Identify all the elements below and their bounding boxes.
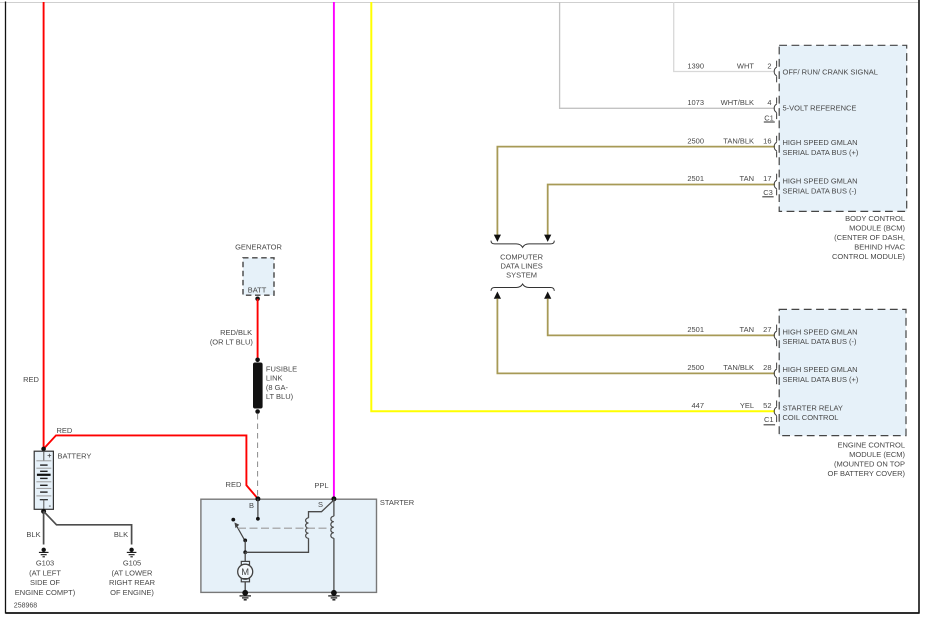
- svg-text:RED: RED: [23, 375, 39, 384]
- svg-text:52: 52: [763, 401, 771, 410]
- svg-text:(OR LT BLU): (OR LT BLU): [210, 338, 254, 347]
- svg-text:BATTERY: BATTERY: [58, 451, 92, 460]
- svg-text:2501: 2501: [687, 174, 704, 183]
- label diagram number 258968: [14, 602, 37, 609]
- label FUSIBLE LINK (8 GA- LT BLU): [266, 364, 297, 400]
- svg-text:HIGH SPEED GMLAN: HIGH SPEED GMLAN: [783, 365, 858, 374]
- BCM pin 2 connector: [774, 67, 777, 76]
- svg-text:SERIAL DATA BUS (+): SERIAL DATA BUS (+): [783, 375, 859, 384]
- BCM pin 4 connector: [774, 104, 777, 113]
- label BCM caption: [832, 214, 906, 261]
- svg-text:MODULE (ECM): MODULE (ECM): [849, 450, 905, 459]
- page bottom border: [6, 612, 920, 614]
- node generator BATT terminal: [255, 297, 260, 302]
- svg-text:(AT LEFT: (AT LEFT: [29, 568, 61, 577]
- wire dashed fusible link to starter B: [257, 414, 259, 497]
- svg-text:M: M: [241, 566, 249, 577]
- svg-text:GENERATOR: GENERATOR: [235, 243, 282, 252]
- svg-text:2500: 2500: [687, 136, 704, 145]
- svg-text:YEL: YEL: [740, 401, 754, 410]
- label wire 1073 WHT/BLK pin 4: [687, 98, 771, 107]
- svg-text:ENGINE COMPT): ENGINE COMPT): [15, 588, 76, 597]
- svg-text:RIGHT REAR: RIGHT REAR: [109, 578, 156, 587]
- node fusible link bottom: [255, 409, 260, 414]
- svg-text:(AT LOWER: (AT LOWER: [112, 568, 154, 577]
- svg-text:27: 27: [763, 325, 771, 334]
- wire junction to motor: [244, 552, 246, 562]
- svg-text:LINK: LINK: [266, 373, 283, 382]
- wire TAN ECM pin 27: [548, 299, 775, 336]
- wire RED battery to starter: [44, 435, 258, 498]
- label BATT: [248, 285, 267, 294]
- battery BATTERY box: [34, 451, 53, 509]
- svg-text:TAN: TAN: [740, 325, 754, 334]
- connector inner dashes at module pins: [776, 61, 778, 422]
- svg-text:MODULE (BCM): MODULE (BCM): [849, 224, 905, 233]
- svg-text:BATT: BATT: [248, 285, 267, 294]
- label BLK (left): [26, 530, 40, 539]
- svg-text:2501: 2501: [687, 325, 704, 334]
- label BLK (right): [114, 530, 128, 539]
- node starter S terminal: [331, 496, 336, 501]
- page right border: [918, 0, 920, 614]
- label connector C1 (ECM): [764, 415, 776, 425]
- motor M: [238, 561, 253, 592]
- svg-text:C1: C1: [764, 113, 774, 122]
- battery bottom node: [41, 509, 46, 514]
- svg-text:TAN/BLK: TAN/BLK: [723, 363, 754, 372]
- svg-text:RED/BLK: RED/BLK: [220, 328, 252, 337]
- svg-text:BLK: BLK: [114, 530, 128, 539]
- node motor ground: [242, 590, 248, 596]
- svg-text:1073: 1073: [687, 98, 704, 107]
- solenoid coil right: [331, 516, 334, 538]
- label B: [249, 501, 254, 510]
- svg-text:BEHIND HVAC: BEHIND HVAC: [854, 243, 905, 252]
- svg-text:(8 GA-: (8 GA-: [266, 383, 289, 392]
- svg-text:17: 17: [763, 174, 771, 183]
- arrow up right: [544, 292, 551, 299]
- wire RED/BLK generator to fusible link: [257, 299, 259, 360]
- svg-text:COIL CONTROL: COIL CONTROL: [783, 413, 839, 422]
- svg-text:BODY CONTROL: BODY CONTROL: [845, 214, 905, 223]
- svg-text:SERIAL DATA BUS (-): SERIAL DATA BUS (-): [783, 337, 858, 346]
- BCM pin 16 connector: [774, 142, 777, 151]
- wire switch to motor junction: [244, 540, 246, 552]
- ground G103 symbol: [39, 548, 49, 557]
- dashed mechanical link in starter: [238, 527, 331, 529]
- svg-text:SIDE OF: SIDE OF: [30, 578, 60, 587]
- label G105 caption: [109, 559, 156, 597]
- svg-text:HIGH SPEED GMLAN: HIGH SPEED GMLAN: [783, 327, 858, 336]
- svg-text:258968: 258968: [14, 602, 37, 609]
- svg-text:(CENTER OF DASH,: (CENTER OF DASH,: [834, 233, 905, 242]
- ground under motor: [240, 596, 252, 600]
- label RED/BLK (OR LT BLU): [210, 328, 254, 347]
- svg-text:SYSTEM: SYSTEM: [506, 270, 537, 279]
- wire RED trunk vertical: [43, 2, 45, 449]
- wire TAN/BLK BCM pin 16: [497, 147, 775, 236]
- svg-text:STARTER RELAY: STARTER RELAY: [783, 403, 843, 412]
- brace lower: [491, 284, 554, 291]
- ECM pin 28 connector: [774, 369, 777, 378]
- svg-text:PPL: PPL: [314, 481, 328, 490]
- starter box: [201, 499, 377, 592]
- svg-text:HIGH SPEED GMLAN: HIGH SPEED GMLAN: [783, 138, 858, 147]
- ECM pin 52 connector: [774, 407, 777, 416]
- wire BLK to G105: [44, 511, 132, 544]
- wire BLK to G103: [43, 511, 45, 544]
- label connector C1 (BCM): [764, 113, 775, 122]
- starter wire B to switch contact: [257, 499, 259, 518]
- svg-text:OF BATTERY COVER): OF BATTERY COVER): [827, 469, 905, 478]
- arrow down right: [544, 235, 551, 242]
- svg-text:HIGH SPEED GMLAN: HIGH SPEED GMLAN: [783, 176, 858, 185]
- svg-text:OFF/ RUN/ CRANK SIGNAL: OFF/ RUN/ CRANK SIGNAL: [783, 68, 878, 77]
- ground G105 symbol: [127, 548, 137, 557]
- wire YEL trunk: [371, 2, 775, 411]
- solenoid coil left: [306, 518, 309, 538]
- switch blade with arrow: [234, 522, 245, 541]
- svg-text:CONTROL MODULE): CONTROL MODULE): [832, 252, 906, 261]
- svg-text:SERIAL DATA BUS (-): SERIAL DATA BUS (-): [783, 186, 858, 195]
- generator box: [243, 258, 274, 295]
- label RED (trunk): [23, 375, 39, 384]
- svg-text:G105: G105: [123, 559, 141, 568]
- svg-text:LT BLU): LT BLU): [266, 392, 294, 401]
- svg-text:TAN/BLK: TAN/BLK: [723, 136, 754, 145]
- label ECM caption: [827, 441, 905, 479]
- node motor junction: [243, 550, 247, 554]
- svg-text:WHT: WHT: [737, 62, 754, 71]
- wire WHT/BLK to BCM pin 4: [560, 2, 775, 108]
- node switch bottom: [243, 539, 247, 543]
- svg-text:OF ENGINE): OF ENGINE): [110, 588, 154, 597]
- svg-text:ENGINE CONTROL: ENGINE CONTROL: [837, 441, 905, 450]
- BCM pin function labels: [783, 68, 878, 196]
- svg-text:447: 447: [691, 401, 704, 410]
- svg-text:16: 16: [763, 136, 771, 145]
- wire S dot to right coil: [333, 499, 335, 517]
- svg-text:DATA LINES: DATA LINES: [500, 261, 542, 270]
- node switch fixed contact right: [256, 517, 260, 521]
- label wire 1390 WHT pin 2: [687, 62, 771, 71]
- fusible link body: [253, 363, 263, 409]
- svg-text:WHT/BLK: WHT/BLK: [721, 98, 754, 107]
- svg-text:+: +: [47, 451, 51, 460]
- label wire 2500 TAN/BLK pin 16: [687, 136, 771, 145]
- svg-text:(MOUNTED ON TOP: (MOUNTED ON TOP: [834, 460, 905, 469]
- arrow up left (from computer data lines): [494, 292, 501, 299]
- label wire 2501 TAN pin 27: [687, 325, 771, 334]
- svg-text:C1: C1: [764, 415, 774, 424]
- ECM pin function labels: [783, 327, 859, 422]
- svg-text:BLK: BLK: [26, 530, 40, 539]
- page top border (gray): [0, 2, 919, 4]
- label STARTER: [380, 498, 415, 507]
- svg-text:G103: G103: [36, 559, 54, 568]
- wire TAN/BLK ECM pin 28: [497, 299, 775, 374]
- label wire 2501 TAN pin 17: [687, 174, 771, 183]
- node switch fixed contact left: [231, 518, 235, 522]
- BCM pin 17 connector: [774, 180, 777, 189]
- svg-text:2: 2: [767, 62, 771, 71]
- wire S to solenoid coils: [309, 500, 334, 518]
- svg-text:C3: C3: [763, 188, 773, 197]
- label wire 447 YEL pin 52: [691, 401, 771, 410]
- label wire 2500 TAN/BLK pin 28: [687, 363, 771, 372]
- label COMPUTER DATA LINES SYSTEM: [500, 252, 544, 279]
- wire TAN BCM pin 17: [548, 185, 775, 236]
- label connector C3 (BCM): [762, 188, 773, 197]
- svg-text:2500: 2500: [687, 363, 704, 372]
- label S: [318, 500, 323, 509]
- wire PPL trunk vertical: [333, 2, 335, 499]
- svg-text:RED: RED: [57, 426, 73, 435]
- battery plus sign: [47, 451, 51, 460]
- svg-text:28: 28: [763, 363, 771, 372]
- module BCM box: [779, 45, 907, 211]
- wire junction to coil bottom: [245, 538, 308, 552]
- label PPL: [314, 481, 328, 490]
- arrow down left (into computer data lines): [494, 235, 501, 242]
- svg-text:TAN: TAN: [740, 174, 754, 183]
- node right coil ground: [331, 590, 337, 596]
- label GENERATOR: [235, 243, 282, 252]
- svg-text:FUSIBLE: FUSIBLE: [266, 364, 297, 373]
- label RED (horizontal run): [57, 426, 73, 435]
- wire WHT to BCM pin 2: [674, 2, 775, 72]
- node starter B terminal: [255, 496, 260, 501]
- svg-text:STARTER: STARTER: [380, 498, 415, 507]
- battery minus sign: [49, 501, 52, 510]
- ECM pin 27 connector: [774, 331, 777, 340]
- svg-text:SERIAL DATA BUS (+): SERIAL DATA BUS (+): [783, 148, 859, 157]
- page left border: [5, 2, 7, 614]
- brace upper: [491, 241, 554, 248]
- svg-text:S: S: [318, 500, 323, 509]
- label RED (at starter B): [226, 480, 242, 489]
- module ECM box: [779, 309, 906, 435]
- svg-text:4: 4: [767, 98, 771, 107]
- label G103 caption: [15, 559, 76, 597]
- svg-text:COMPUTER: COMPUTER: [500, 252, 544, 261]
- svg-text:1390: 1390: [687, 62, 704, 71]
- battery junction node: [41, 447, 46, 452]
- svg-text:B: B: [249, 501, 254, 510]
- svg-text:5-VOLT REFERENCE: 5-VOLT REFERENCE: [783, 104, 857, 113]
- node fusible link top: [255, 358, 260, 363]
- wire right coil to ground: [333, 538, 335, 592]
- ground under right coil: [328, 596, 340, 600]
- label BATTERY: [58, 451, 92, 460]
- svg-text:RED: RED: [226, 480, 242, 489]
- battery internals: [36, 451, 51, 509]
